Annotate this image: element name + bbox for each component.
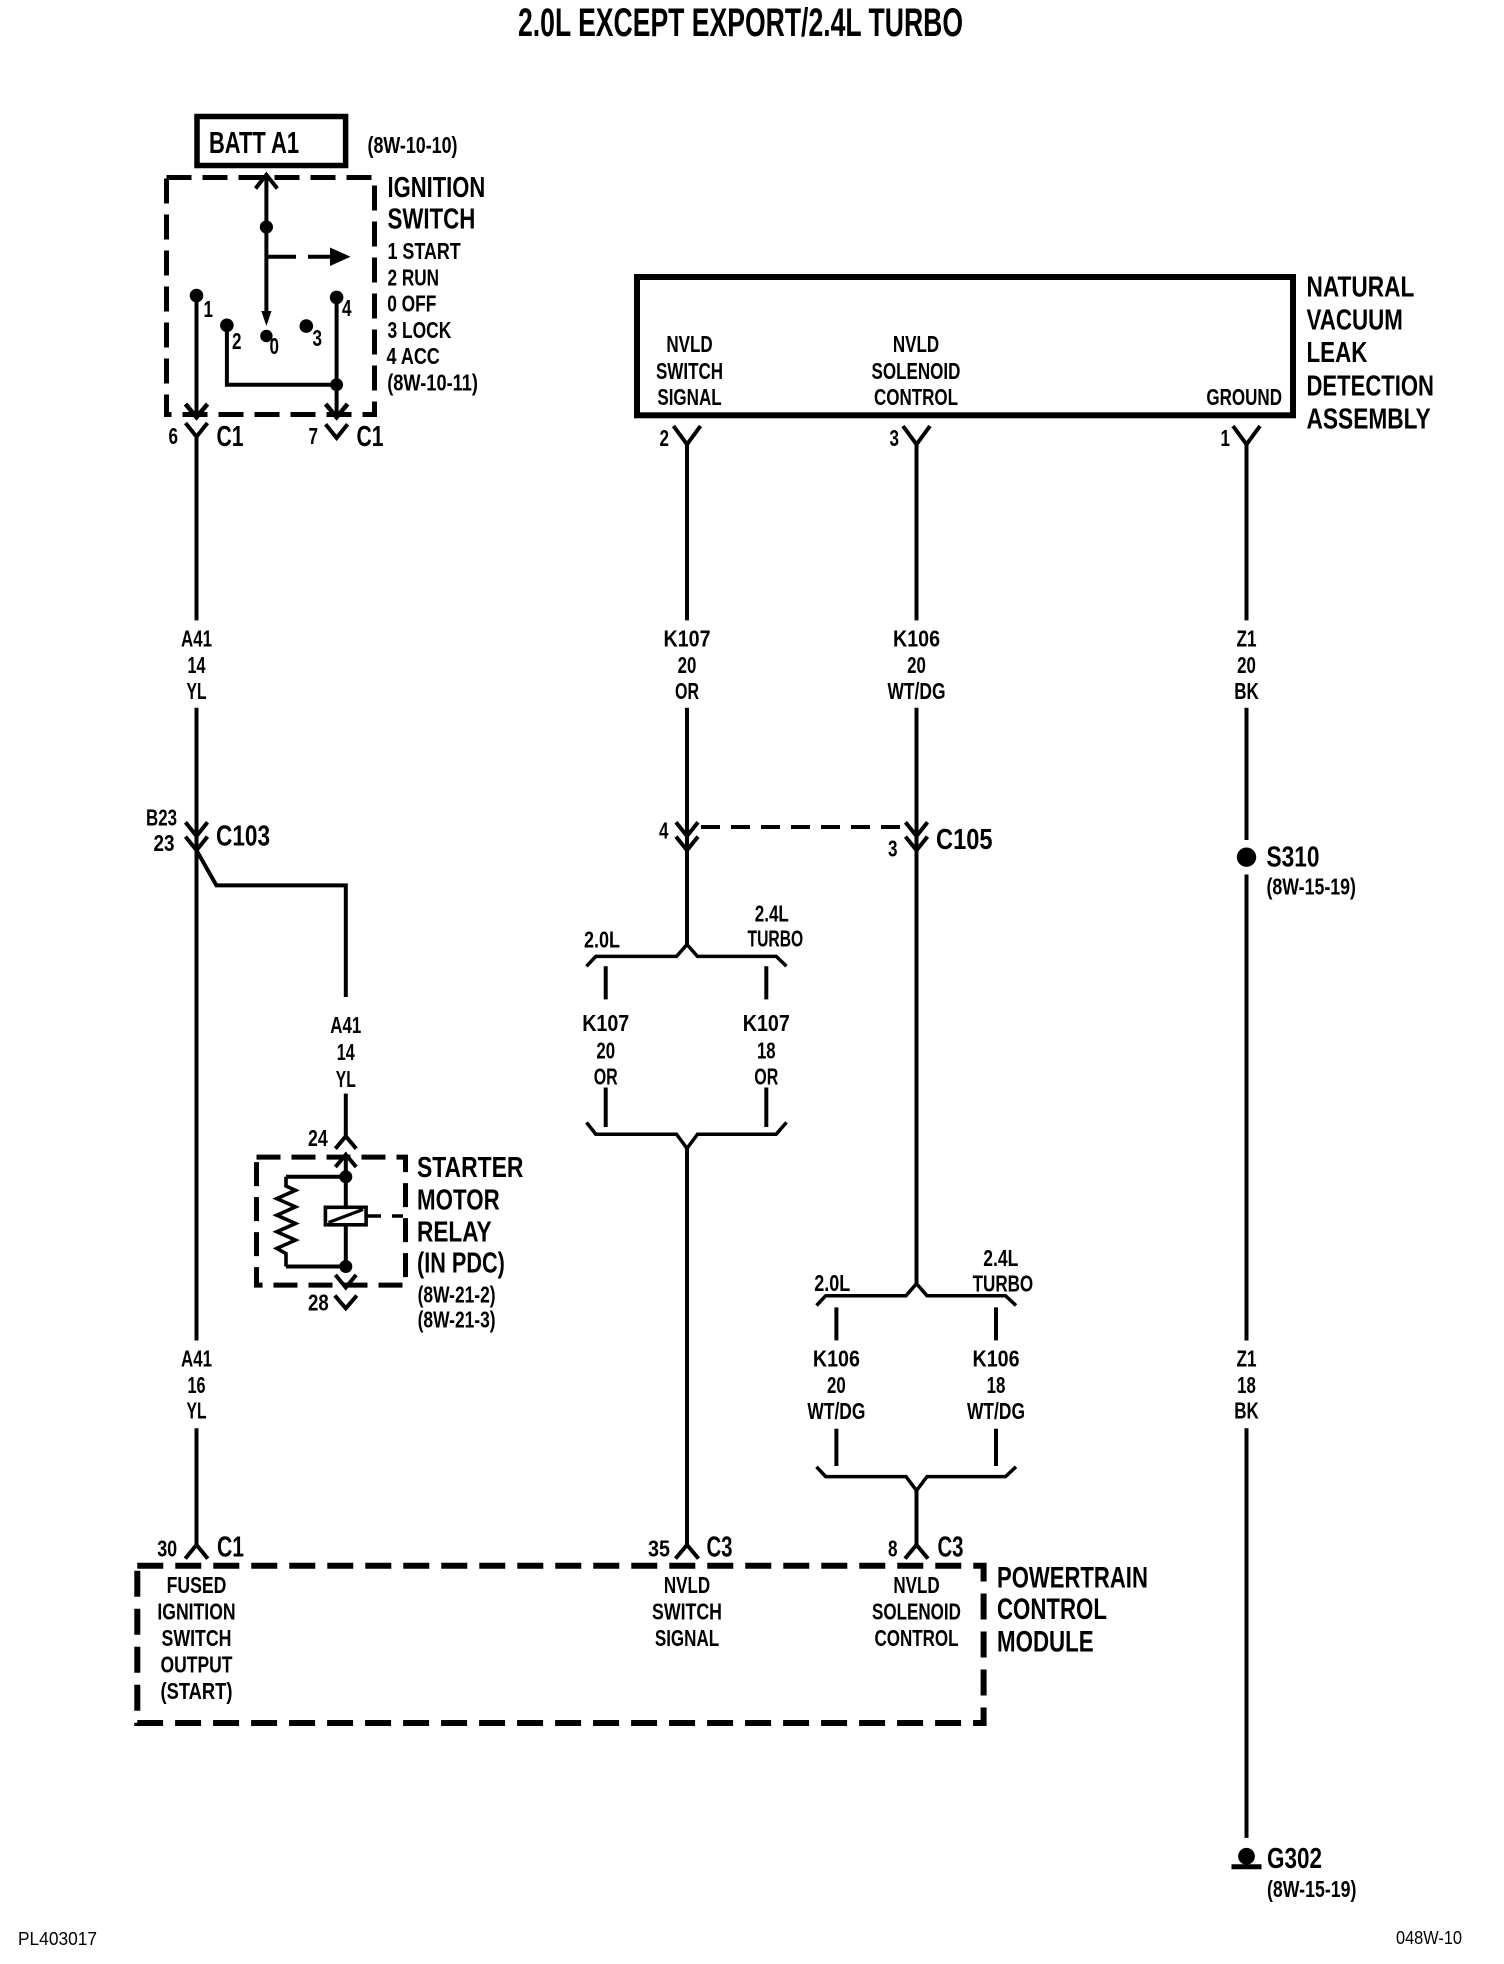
svg-text:DETECTION: DETECTION	[1307, 371, 1435, 403]
relay coil (resistor zigzag)	[277, 1177, 296, 1267]
junction dot on ignition feed	[260, 220, 273, 233]
svg-text:NVLD: NVLD	[893, 1572, 939, 1598]
wire K106 20 WT/DG upper	[915, 444, 919, 620]
svg-text:SWITCH: SWITCH	[162, 1625, 232, 1651]
pin 24 chevron at relay box edge	[335, 1155, 356, 1167]
svg-text:MODULE: MODULE	[997, 1626, 1094, 1659]
svg-text:23: 23	[154, 830, 175, 856]
svg-text:OR: OR	[594, 1064, 618, 1090]
svg-text:16: 16	[188, 1372, 206, 1398]
svg-text:NVLD: NVLD	[666, 331, 712, 357]
svg-text:CONTROL: CONTROL	[874, 1625, 958, 1651]
svg-text:LEAK: LEAK	[1307, 337, 1368, 369]
branch wire from C103 to starter motor relay	[197, 850, 346, 997]
svg-text:2: 2	[232, 328, 242, 354]
svg-text:2: 2	[660, 425, 670, 451]
engine variant split brace (top, K106)	[817, 1284, 1017, 1306]
connector C103 double chevron	[186, 822, 208, 850]
svg-text:20: 20	[678, 652, 697, 678]
ground G302 symbol	[1238, 1848, 1255, 1865]
svg-text:18: 18	[987, 1372, 1006, 1398]
svg-text:Z1: Z1	[1237, 1345, 1257, 1371]
svg-text:ASSEMBLY: ASSEMBLY	[1307, 404, 1431, 436]
wire Z1 20 BK	[1245, 444, 1249, 620]
svg-text:1: 1	[204, 296, 214, 322]
svg-text:POWERTRAIN: POWERTRAIN	[997, 1562, 1148, 1595]
PCM pin 35 connector chevron	[676, 1545, 699, 1559]
svg-text:BK: BK	[1234, 1398, 1259, 1424]
svg-text:TURBO: TURBO	[748, 926, 804, 952]
svg-text:A41: A41	[181, 626, 212, 652]
svg-text:YL: YL	[336, 1066, 356, 1092]
svg-text:28: 28	[308, 1289, 329, 1315]
wire K106 merge to PCM pin 8	[915, 1491, 919, 1545]
connector C105 double chevron	[906, 822, 928, 850]
powertrain control module dashed box	[137, 1566, 983, 1723]
pin 6 connector C1 chevron	[186, 423, 208, 437]
svg-text:2.0L EXCEPT EXPORT/2.4L TURBO: 2.0L EXCEPT EXPORT/2.4L TURBO	[518, 1, 963, 45]
svg-text:STARTER: STARTER	[417, 1152, 523, 1184]
svg-text:RELAY: RELAY	[417, 1217, 492, 1249]
svg-text:NATURAL: NATURAL	[1307, 271, 1415, 303]
svg-text:C3: C3	[938, 1532, 964, 1564]
svg-text:048W-10: 048W-10	[1396, 1928, 1462, 1948]
svg-text:IGNITION: IGNITION	[157, 1599, 235, 1625]
svg-text:2.0L: 2.0L	[584, 927, 620, 953]
svg-text:CONTROL: CONTROL	[997, 1593, 1107, 1626]
svg-text:3: 3	[313, 325, 323, 351]
wire contact 2 to contact 4 branch	[227, 325, 337, 384]
splice S310	[1237, 848, 1256, 867]
wire contact 4 to pin 7	[335, 297, 339, 417]
svg-text:1 START: 1 START	[388, 238, 461, 264]
svg-text:C1: C1	[217, 421, 244, 453]
PCM pin 30 connector chevron	[185, 1545, 208, 1559]
svg-text:YL: YL	[187, 678, 207, 704]
svg-text:WT/DG: WT/DG	[888, 678, 946, 704]
svg-text:K107: K107	[664, 626, 711, 652]
svg-text:0: 0	[270, 333, 280, 359]
svg-text:30: 30	[157, 1536, 177, 1562]
svg-text:PL403017: PL403017	[18, 1929, 97, 1949]
svg-text:K107: K107	[582, 1010, 629, 1036]
contact 4 (ACC)	[330, 291, 344, 305]
NVLD pin 2 connector chevron	[674, 426, 701, 444]
arrowhead pointing to contact 0	[261, 311, 271, 326]
2.0L branch stub	[834, 1307, 838, 1340]
2.0L branch stub	[604, 966, 608, 999]
svg-text:C1: C1	[357, 421, 384, 453]
svg-text:FUSED: FUSED	[167, 1572, 227, 1598]
svg-text:4 ACC: 4 ACC	[387, 343, 440, 369]
pin 24 connector chevron	[335, 1136, 356, 1149]
svg-text:SIGNAL: SIGNAL	[657, 384, 721, 410]
svg-text:S310: S310	[1267, 842, 1320, 874]
ignition switch dashed box	[167, 178, 375, 415]
svg-text:C1: C1	[217, 1532, 244, 1564]
svg-text:WT/DG: WT/DG	[807, 1398, 865, 1424]
svg-text:K107: K107	[743, 1010, 790, 1036]
PCM pin 8 connector chevron	[905, 1545, 928, 1559]
contact 0	[260, 330, 272, 342]
svg-text:SWITCH: SWITCH	[656, 358, 723, 384]
svg-text:14: 14	[337, 1039, 355, 1065]
svg-text:0 OFF: 0 OFF	[387, 291, 436, 317]
svg-text:2.4L: 2.4L	[755, 900, 789, 926]
wire A41 14 YL upper segment	[195, 437, 199, 621]
NVLD pin 3 connector chevron	[903, 426, 930, 444]
contact 3 (LOCK)	[300, 319, 314, 333]
svg-text:SWITCH: SWITCH	[388, 204, 476, 236]
svg-text:(8W-10-10): (8W-10-10)	[368, 132, 458, 158]
pin 7 arrow at box edge	[326, 404, 348, 417]
svg-text:2.0L: 2.0L	[814, 1270, 850, 1296]
svg-text:G302: G302	[1267, 1843, 1322, 1875]
svg-text:6: 6	[169, 423, 179, 449]
junction dot under contact 4	[330, 378, 343, 391]
wire to relay coil	[286, 1175, 346, 1179]
svg-text:BK: BK	[1234, 678, 1259, 704]
svg-text:18: 18	[757, 1038, 776, 1064]
svg-text:OR: OR	[754, 1064, 778, 1090]
natural vacuum leak detection assembly box	[637, 277, 1293, 415]
svg-text:C3: C3	[707, 1532, 733, 1564]
wire A41 to connector C103	[195, 708, 199, 823]
svg-text:B23: B23	[146, 805, 177, 831]
svg-text:MOTOR: MOTOR	[417, 1184, 500, 1216]
wire Z1 18 BK	[1245, 875, 1249, 1341]
battery feed box BATT A1	[197, 117, 346, 166]
svg-text:K106: K106	[893, 626, 940, 652]
svg-text:SOLENOID: SOLENOID	[872, 1599, 961, 1625]
svg-text:SWITCH: SWITCH	[652, 1599, 722, 1625]
svg-text:4: 4	[342, 295, 352, 321]
pin 7 connector C1 chevron	[326, 424, 348, 438]
wire A41 16 YL lower segment	[195, 822, 199, 1341]
wire K107 to 2.0L/2.4L split	[685, 822, 689, 945]
svg-text:14: 14	[188, 652, 206, 678]
svg-text:20: 20	[1237, 652, 1256, 678]
svg-text:3 LOCK: 3 LOCK	[388, 317, 452, 343]
wire K107 merge to PCM pin 35	[685, 1148, 689, 1545]
relay coil top junction dot	[339, 1170, 352, 1183]
svg-text:NVLD: NVLD	[893, 331, 939, 357]
in-line connector 4 double chevron	[676, 822, 698, 850]
svg-text:1: 1	[1221, 425, 1231, 451]
pin 28 arrow at relay box edge	[335, 1275, 356, 1288]
wire K106 to 2.0L/2.4L split	[915, 822, 919, 1284]
relay contact box	[325, 1207, 366, 1225]
relay internal wire pin 24 to pin 28	[344, 1155, 348, 1267]
contact 1 (START)	[190, 289, 204, 303]
svg-text:3: 3	[888, 836, 898, 862]
NVLD pin 1 connector chevron	[1233, 426, 1260, 444]
engine variant merge brace (bottom, K107)	[587, 1122, 787, 1148]
svg-text:(8W-21-2): (8W-21-2)	[418, 1282, 496, 1308]
svg-text:C105: C105	[936, 824, 993, 856]
engine variant split brace (top, K107)	[587, 945, 787, 967]
engine variant merge brace (bottom, K106)	[817, 1467, 1017, 1491]
svg-text:WT/DG: WT/DG	[967, 1398, 1025, 1424]
2.4L branch stub	[764, 966, 768, 999]
svg-text:7: 7	[309, 423, 319, 449]
svg-text:(8W-21-3): (8W-21-3)	[418, 1307, 496, 1333]
wire K107 20 OR upper	[685, 444, 689, 620]
svg-text:VACUUM: VACUUM	[1307, 305, 1403, 337]
svg-text:K106: K106	[813, 1346, 860, 1372]
svg-text:C103: C103	[216, 821, 270, 853]
relay contact actuating stub	[366, 1214, 403, 1218]
svg-text:OUTPUT: OUTPUT	[161, 1651, 233, 1677]
svg-text:3: 3	[890, 425, 900, 451]
svg-text:4: 4	[659, 818, 669, 844]
svg-text:A41: A41	[330, 1012, 361, 1038]
svg-text:IGNITION: IGNITION	[388, 172, 486, 204]
svg-text:A41: A41	[181, 1345, 212, 1371]
connector chevron at ignition box top	[256, 175, 278, 189]
svg-text:(8W-10-11): (8W-10-11)	[387, 370, 478, 396]
svg-text:24: 24	[308, 1125, 328, 1151]
svg-text:K106: K106	[973, 1346, 1020, 1372]
svg-text:SIGNAL: SIGNAL	[655, 1625, 719, 1651]
pin 28 connector chevron	[335, 1296, 357, 1309]
svg-text:GROUND: GROUND	[1206, 384, 1282, 410]
svg-text:20: 20	[907, 652, 926, 678]
svg-text:(8W-15-19): (8W-15-19)	[1267, 874, 1356, 900]
svg-text:SOLENOID: SOLENOID	[872, 358, 961, 384]
svg-text:2.4L: 2.4L	[983, 1245, 1018, 1271]
svg-text:(IN PDC): (IN PDC)	[417, 1248, 505, 1280]
svg-text:YL: YL	[187, 1398, 207, 1424]
svg-text:CONTROL: CONTROL	[874, 384, 958, 410]
svg-text:TURBO: TURBO	[973, 1271, 1034, 1297]
svg-text:OR: OR	[675, 678, 699, 704]
contact 2 (RUN)	[220, 319, 234, 333]
svg-text:(START): (START)	[161, 1678, 233, 1704]
svg-text:18: 18	[1237, 1372, 1256, 1398]
svg-text:(8W-15-19): (8W-15-19)	[1267, 1876, 1356, 1902]
starter motor relay dashed box	[257, 1157, 406, 1285]
2.4L branch stub	[994, 1307, 998, 1340]
rotor wiper line with dashed arrow (switch position indicator)	[266, 255, 296, 259]
svg-text:NVLD: NVLD	[664, 1572, 710, 1598]
svg-text:BATT A1: BATT A1	[209, 125, 299, 160]
relay coil bottom junction dot	[339, 1260, 352, 1273]
pin 6 arrow at box edge	[186, 404, 208, 417]
svg-text:20: 20	[827, 1372, 846, 1398]
svg-text:8: 8	[888, 1536, 898, 1562]
wire from BATT A1 into ignition switch	[264, 175, 268, 319]
wire contact 1 to pin 6	[195, 296, 199, 417]
svg-text:Z1: Z1	[1237, 626, 1257, 652]
svg-text:2 RUN: 2 RUN	[388, 264, 440, 290]
dashed tie line between connector 4 and C105	[701, 825, 905, 829]
svg-text:35: 35	[648, 1536, 670, 1562]
svg-text:20: 20	[596, 1038, 615, 1064]
